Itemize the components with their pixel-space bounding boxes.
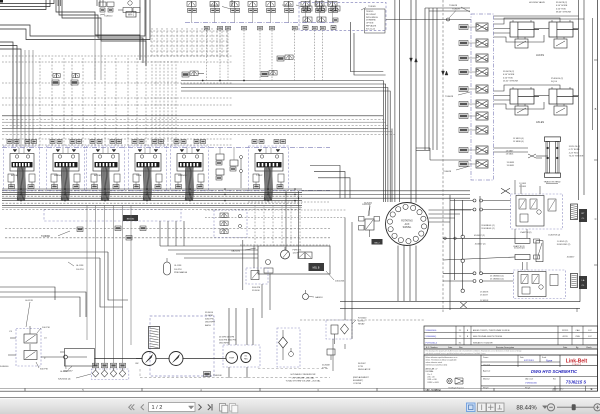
wire top-left staircase bundle <box>0 0 150 128</box>
toolbar first-page button <box>129 404 135 410</box>
svg-text:CAD - Solid Edge: CAD - Solid Edge <box>426 388 442 391</box>
mini valve stack box <box>214 210 247 238</box>
pilot rails center-bottom <box>205 202 346 246</box>
svg-text:REGULATOR: REGULATOR <box>358 368 371 371</box>
valve station 5 (SWING 2) <box>171 140 209 201</box>
svg-text:Rev: Rev <box>459 347 463 349</box>
axle spec text <box>503 71 563 83</box>
wire staircase mid <box>310 166 350 199</box>
disconnect couplings B <box>443 272 513 283</box>
svg-text:V1/6661000: V1/6661000 <box>426 330 438 332</box>
track spec text <box>569 146 584 158</box>
svg-text:1X 6B3 8: 1X 6B3 8 <box>480 292 489 294</box>
pressure switch PS17 <box>261 71 277 77</box>
svg-text:EACH: EACH <box>205 324 211 327</box>
svg-text:SWIVEL: SWIVEL <box>403 227 412 229</box>
jack cylinder 1 <box>510 20 539 48</box>
label S2U6000 <box>58 374 91 380</box>
fan motor <box>241 353 251 363</box>
svg-text:OIL: OIL <box>244 356 247 358</box>
svg-text:C5A5T18 (2): C5A5T18 (2) <box>520 231 532 234</box>
svg-text:GAJ618: GAJ618 <box>315 296 323 299</box>
wire box to column top <box>386 9 584 22</box>
svg-text:OPTION: OPTION <box>366 23 374 25</box>
svg-text:3000 PSI 3000 PSI: 3000 PSI 3000 PSI <box>219 340 236 342</box>
toolbar zoom slider <box>557 404 594 410</box>
pilot rail (blue dash-dot) <box>2 148 330 191</box>
swivel lower ports <box>398 246 416 302</box>
svg-text:2/22/19: 2/22/19 <box>562 330 568 332</box>
wire nested rectangle bundle B <box>350 0 399 202</box>
svg-text:MSL B: MSL B <box>313 268 320 270</box>
svg-text:1X 6B36 (4): 1X 6B36 (4) <box>513 141 524 143</box>
axle cylinder 2 <box>549 87 578 115</box>
svg-text:1X 6D37: 1X 6D37 <box>480 295 489 297</box>
svg-text:T3J6060: T3J6060 <box>41 236 51 238</box>
svg-text:JCC: JCC <box>588 330 592 332</box>
svg-text:CAH: CAH <box>576 329 581 332</box>
reservoir and filter <box>277 328 300 367</box>
toolbar zoom in <box>594 404 600 411</box>
wire panel to pumps <box>243 240 270 318</box>
reservoir boundary dashed <box>140 369 330 378</box>
svg-text:(REPLACEMENT: (REPLACEMENT <box>353 376 369 379</box>
gauge panel <box>258 246 330 274</box>
svg-text:E.C. Number: E.C. Number <box>426 347 438 349</box>
svg-text:RELAY: RELAY <box>358 323 365 326</box>
title weight sheet <box>483 387 593 391</box>
title drawing name <box>483 369 578 374</box>
svg-text:26.52" STROKE: 26.52" STROKE <box>503 81 519 83</box>
svg-text:4.24" ROD: 4.24" ROD <box>569 152 579 154</box>
svg-text:54J6192: 54J6192 <box>364 203 373 205</box>
wire pump outlets <box>229 308 253 378</box>
wire filter feed verticals <box>87 205 131 363</box>
svg-text:73J6215 S: 73J6215 S <box>566 379 586 384</box>
wire right mid verticals <box>450 195 480 310</box>
mesh junction dots <box>52 83 177 140</box>
svg-text:Approval: Approval <box>483 370 491 373</box>
valve cluster 74J6010 top-left <box>99 1 140 18</box>
tag WA-1 <box>126 5 231 17</box>
pilot rail top (blue dash-dot) <box>185 22 335 24</box>
proprietary note <box>424 349 598 355</box>
steer cylinder text <box>475 231 576 259</box>
tag MSL B <box>309 263 325 271</box>
svg-text:Material: Material <box>483 378 490 381</box>
dashed vertical 443 <box>442 0 449 312</box>
svg-text:10/750: 10/750 <box>358 321 365 323</box>
svg-text:C R A N E S: C R A N E S <box>572 363 582 366</box>
valve station 6 (T-SUP) <box>249 140 289 201</box>
wire below-bus verticals <box>160 221 258 258</box>
svg-text:ELEMENT): ELEMENT) <box>353 380 363 382</box>
svg-text:3KO W/6&7: 3KO W/6&7 <box>366 14 376 16</box>
toolbar single-page icon <box>220 404 228 413</box>
svg-text:T3J6108: T3J6108 <box>213 375 222 377</box>
wire run y287 <box>0 287 55 300</box>
svg-text:C: C <box>595 217 597 221</box>
pilot tag row and dashed drops <box>204 26 325 80</box>
svg-text:TRACK EXTEND: TRACK EXTEND <box>544 181 561 184</box>
junction node GAJ6067 <box>41 355 87 372</box>
wire far right verticals <box>579 0 593 200</box>
svg-text:JCC: JCC <box>588 336 592 338</box>
svg-text:GLJ138: GLJ138 <box>76 265 84 267</box>
svg-text:BOOM: BOOM <box>11 175 18 177</box>
toolbar prev-page button <box>141 404 144 410</box>
pump enclosure 51J6010 <box>150 312 215 376</box>
svg-text:10UD266: 10UD266 <box>335 281 345 283</box>
svg-text:1863 RPM: 1863 RPM <box>219 343 229 345</box>
rotating hydraulic swivel <box>386 203 429 246</box>
pressure switch PS18 <box>182 71 204 77</box>
svg-text:4.50" ROD: 4.50" ROD <box>503 77 513 79</box>
svg-text:5 PSI: 5 PSI <box>358 366 363 368</box>
svg-text:PRECHARGE: PRECHARGE <box>174 271 188 274</box>
svg-text:E: E <box>591 387 593 391</box>
steer assembly A <box>511 194 563 229</box>
svg-text:20108B001 (2): 20108B001 (2) <box>481 225 495 227</box>
track hose labels <box>506 138 536 167</box>
svg-text:1X 6B39: 1X 6B39 <box>507 162 516 164</box>
label 10UD266 panel <box>326 271 345 283</box>
svg-text:WA-1: WA-1 <box>128 14 135 17</box>
toolbar zoom percent <box>516 406 547 412</box>
wire above title block <box>300 218 424 371</box>
right valve column manifold <box>471 14 494 180</box>
svg-text:38.03" STROKE: 38.03" STROKE <box>556 12 572 14</box>
svg-text:GLJ139: GLJ139 <box>25 300 33 302</box>
svg-text:T3J6028: T3J6028 <box>445 96 454 98</box>
wire nested rectangle bundle A <box>181 80 390 202</box>
wire top edge stubs <box>58 0 328 6</box>
svg-text:74J6010: 74J6010 <box>104 16 113 18</box>
swivel left cluster 54J6192 <box>359 203 380 238</box>
svg-text:20109B001 (2): 20109B001 (2) <box>481 228 495 230</box>
toolbar view icon 2 <box>478 403 487 412</box>
svg-text:P6PD031: P6PD031 <box>293 250 303 252</box>
pump P1 <box>136 352 156 366</box>
option box 73J6105 <box>299 3 386 34</box>
valve station 1 (BOOM) <box>4 140 40 201</box>
svg-text:1X 6B3: 1X 6B3 <box>519 186 526 188</box>
svg-text:.XXXX ± .0005: .XXXX ± .0005 <box>427 382 439 384</box>
tag RIGHT <box>579 209 587 222</box>
pressure switch PS16 <box>277 55 293 61</box>
tag T3J6108 <box>204 372 223 377</box>
label hydraulic reservoir <box>286 373 322 382</box>
label 100 PSI precharge left <box>68 262 84 271</box>
svg-text:5060 PSI: 5060 PSI <box>205 318 214 320</box>
third angle projection symbol <box>447 378 464 390</box>
svg-text:ROTATING: ROTATING <box>401 220 413 223</box>
svg-text:51J6008: 51J6008 <box>322 365 331 367</box>
title cad level <box>483 377 586 384</box>
valve station 3 (BOOM 1) <box>87 140 125 201</box>
wire left runs mid <box>0 252 128 317</box>
svg-text:O7J6748: O7J6748 <box>353 383 362 385</box>
jack spec text <box>529 1 572 14</box>
svg-text:C5J63T18 (2): C5J63T18 (2) <box>548 235 561 237</box>
svg-text:SIMILAR TO 73J6197E: SIMILAR TO 73J6197E <box>473 341 493 344</box>
svg-text:6.50" BORE: 6.50" BORE <box>556 5 568 7</box>
revision table <box>424 326 598 345</box>
svg-text:1X 6B3: 1X 6B3 <box>519 183 526 185</box>
breather and regulator <box>322 349 371 385</box>
svg-text:By: By <box>576 347 578 349</box>
svg-text:SWING: SWING <box>54 175 62 177</box>
svg-text:51J6010: 51J6010 <box>205 312 214 314</box>
svg-text:MS 2: MS 2 <box>374 242 380 244</box>
svg-text:26 GPM 26 GPM: 26 GPM 26 GPM <box>219 337 235 339</box>
gauge GAJ618 <box>303 290 324 300</box>
pilot dashed mesh upper-center <box>150 28 228 56</box>
assembly B cooler element <box>571 274 578 288</box>
svg-text:4.50" ROD: 4.50" ROD <box>556 8 566 10</box>
wire left vertical bundle <box>13 50 33 147</box>
labels for 54J6000 <box>0 300 50 371</box>
svg-text:Check: Check <box>586 347 592 349</box>
label TRACK EXTEND <box>544 181 561 184</box>
svg-text:1X 6B3 8: 1X 6B3 8 <box>480 300 489 302</box>
svg-text:31J0078 (2): 31J0078 (2) <box>556 2 567 4</box>
pressure switch PS12 <box>71 74 79 86</box>
svg-text:6.50" BORE: 6.50" BORE <box>503 74 515 76</box>
tag MS-2 <box>372 239 383 245</box>
title cells drawn <box>483 356 553 367</box>
svg-text:88.44%: 88.44% <box>516 406 537 412</box>
svg-text:HOLDING VALVE: HOLDING VALVE <box>529 1 545 4</box>
title block frame <box>424 355 598 391</box>
jack cylinder 2 <box>549 20 578 48</box>
svg-text:TOTAL SYSTEM VOLUME - 263 GAL: TOTAL SYSTEM VOLUME - 263 GAL <box>286 380 322 383</box>
return filters S2U6000 (4) <box>92 363 129 379</box>
toolbar last-page button <box>208 404 212 411</box>
pump P2 <box>169 352 183 366</box>
svg-text:CWH: CWH <box>575 336 580 338</box>
svg-text:S2U6000 (4): S2U6000 (4) <box>58 378 71 380</box>
svg-text:DECIMAL: DECIMAL <box>426 370 434 373</box>
svg-text:54J6000: 54J6000 <box>0 366 9 368</box>
wire staircase top-left descending <box>56 0 146 80</box>
sheet right border with zone letters <box>594 0 598 391</box>
valve station 4 (TELE) <box>129 140 167 201</box>
toolbar view icon 1 active <box>467 403 476 412</box>
svg-text:T3J6078: T3J6078 <box>452 9 461 11</box>
svg-text:4 PSI: 4 PSI <box>322 368 327 370</box>
svg-text:500 PSI: 500 PSI <box>40 369 48 371</box>
assembly B labels <box>490 276 504 281</box>
label TOJ6239 <box>282 5 306 8</box>
svg-text:6660 PSI W/AS 4440 PSI 73J6164: 6660 PSI W/AS 4440 PSI 73J6164 <box>473 335 502 338</box>
svg-text:100 PSI: 100 PSI <box>42 327 50 329</box>
tag LAST <box>579 276 587 289</box>
svg-text:51J0076 (2): 51J0076 (2) <box>503 71 514 73</box>
labels T3J6028 <box>443 5 470 173</box>
accumulator OLJ138 <box>164 258 188 275</box>
svg-text:3000 PSI: 3000 PSI <box>252 287 261 289</box>
wire low horizontal runs <box>340 220 580 312</box>
svg-text:T-SUP: T-SUP <box>256 175 263 177</box>
main bus band <box>2 189 470 205</box>
svg-text:1X 6B31 (4): 1X 6B31 (4) <box>513 138 524 140</box>
label JACKS <box>536 54 544 57</box>
svg-text:V1/6661000: V1/6661000 <box>525 383 538 385</box>
toolbar next-page button <box>199 404 202 410</box>
disconnect couplings A <box>450 199 511 211</box>
svg-text:23 185B001 (2): 23 185B001 (2) <box>490 276 504 278</box>
svg-text:WITH WINCH: WITH WINCH <box>366 17 378 19</box>
relief relay R7J2000 <box>326 318 367 345</box>
svg-text:1863 RPM: 1863 RPM <box>205 322 215 324</box>
svg-text:SQ D4: SQ D4 <box>551 81 558 83</box>
pressure switch PS11 <box>52 74 60 86</box>
aux pump enclosure <box>219 337 260 368</box>
svg-text:P5J61614 (2): P5J61614 (2) <box>551 78 563 80</box>
svg-text:Weight: Weight <box>483 387 489 390</box>
wire assembly risers <box>515 180 540 270</box>
toolbar view icon 4 <box>496 403 505 412</box>
label 10UD262 top <box>362 204 372 216</box>
label AXLES <box>536 121 544 124</box>
x junction low <box>460 292 489 309</box>
label GAJ6090 <box>231 248 256 253</box>
wire right vertical bundle above swivel <box>425 8 470 150</box>
solenoid valve row top-center <box>187 2 338 23</box>
wire swivel to right runs <box>429 210 472 222</box>
svg-text:4/1/19: 4/1/19 <box>562 336 567 338</box>
below-bus blue box and rails <box>2 208 330 241</box>
sheet bottom border with zone ticks <box>0 388 598 392</box>
wire long runs upper-mid <box>2 116 395 202</box>
svg-text:TOJ6239: TOJ6239 <box>282 5 292 7</box>
valve block above pump <box>149 327 160 349</box>
svg-text:OIL VOLUME - 240 GAL: OIL VOLUME - 240 GAL <box>292 376 316 379</box>
svg-text:20169/1362 (2): 20169/1362 (2) <box>557 244 571 246</box>
svg-text:REPLACES: REPLACES <box>366 25 377 28</box>
svg-text:T3J6028: T3J6028 <box>449 5 458 7</box>
svg-text:B: B <box>595 107 597 111</box>
solenoid valve 10UD266 <box>298 252 312 259</box>
axle cylinder 1 <box>510 87 539 115</box>
engine box <box>60 349 95 374</box>
svg-text:GLJ6067: GLJ6067 <box>60 371 69 373</box>
svg-text:1 6 8545 (2): 1 6 8545 (2) <box>557 241 568 243</box>
svg-text:Checked: Checked <box>483 365 490 367</box>
valve block 54J6000 <box>8 326 41 366</box>
toolbar facing-page icon <box>230 404 238 413</box>
svg-text:AXLES: AXLES <box>536 121 544 124</box>
svg-text:OLJ138: OLJ138 <box>174 265 182 267</box>
toolbar background <box>0 398 600 414</box>
svg-text:23 185B001 (2): 23 185B001 (2) <box>490 279 504 281</box>
x junction mid <box>501 183 527 194</box>
svg-text:CAD Level: CAD Level <box>525 377 534 380</box>
svg-text:PUMP: PUMP <box>229 358 235 360</box>
svg-text:T3J6028: T3J6028 <box>443 171 452 173</box>
svg-text:Weight: Weight <box>525 387 531 390</box>
svg-text:SOL 14-15: SOL 14-15 <box>366 28 375 30</box>
gap cluster between stations 5 and 6 <box>216 148 243 189</box>
svg-text:Drawn: Drawn <box>483 357 488 359</box>
svg-text:Sheet 1 of 2: Sheet 1 of 2 <box>553 387 565 390</box>
pilot dashed mesh left <box>2 56 232 147</box>
label T3J6060 <box>41 231 70 238</box>
assembly A cooler element <box>571 204 578 220</box>
toolbar zoom out <box>547 404 554 411</box>
corner mark <box>0 0 3 3</box>
relief valve 3000 PSI <box>246 268 268 292</box>
wire assembly feeds <box>443 235 525 260</box>
valve station 2 (SWING) <box>47 140 85 201</box>
assembly A labels <box>481 225 560 237</box>
svg-text:34J1807: 34J1807 <box>358 363 367 365</box>
svg-text:100 PSI: 100 PSI <box>76 269 84 271</box>
title block left notes <box>426 356 458 384</box>
toolbar page box <box>149 403 196 412</box>
svg-text:74.25" STROKE: 74.25" STROKE <box>569 156 584 158</box>
svg-text:100 PSI: 100 PSI <box>174 269 182 271</box>
svg-text:ADDED 73J6225, 73J6229 W/AS 31: ADDED 73J6225, 73J6229 W/AS 31-26136 <box>473 329 510 332</box>
svg-text:51J6010: 51J6010 <box>252 290 261 292</box>
svg-text:GAJ6090: GAJ6090 <box>231 250 241 253</box>
steer cylinder capsules <box>515 238 543 261</box>
svg-text:1X 6B31: 1X 6B31 <box>507 165 516 167</box>
svg-text:ANGULAR ± 1°: ANGULAR ± 1° <box>426 368 439 371</box>
svg-text:73J6105: 73J6105 <box>366 11 373 13</box>
revision table header <box>424 345 598 349</box>
wire bundle to swivel verticals <box>392 0 471 203</box>
svg-text:DWG HYD SCHEMATIC: DWG HYD SCHEMATIC <box>531 369 578 374</box>
svg-text:JACKS: JACKS <box>536 54 544 57</box>
svg-text:6/27/2019: 6/27/2019 <box>524 360 535 362</box>
svg-text:1X 6B16: 1X 6B16 <box>506 154 515 156</box>
svg-text:Date: Date <box>520 356 524 359</box>
steer assembly B <box>513 270 565 299</box>
svg-text:T3J6105: T3J6105 <box>368 6 377 8</box>
svg-text:Rev: Rev <box>553 378 556 380</box>
svg-text:45J6657 (2): 45J6657 (2) <box>475 244 486 246</box>
svg-text:None: None <box>546 358 553 362</box>
wire pair right of station 6 <box>285 191 299 259</box>
svg-text:70 GPM: 70 GPM <box>205 315 213 317</box>
track extend cylinders <box>545 137 561 178</box>
svg-text:125 P: 125 P <box>293 253 299 255</box>
svg-text:OW: OW <box>135 363 139 365</box>
svg-text:P17754/62-4: P17754/62-4 <box>426 342 438 344</box>
svg-text:V1/6660/6Q: V1/6660/6Q <box>426 336 437 338</box>
pump drive shaft <box>95 359 227 366</box>
svg-text:45J6657: 45J6657 <box>567 257 576 259</box>
pump P3 (charge) <box>226 352 238 364</box>
svg-text:AUX: AUX <box>405 223 410 226</box>
wire right horizontals to cylinders <box>494 18 579 158</box>
svg-text:45J6657 (2): 45J6657 (2) <box>474 235 485 237</box>
bus junction dots <box>20 188 296 201</box>
svg-text:R7J2000: R7J2000 <box>358 318 367 320</box>
BO tag boxes <box>459 25 476 167</box>
svg-text:HYDRAULIC RESERVOIR: HYDRAULIC RESERVOIR <box>291 373 316 376</box>
svg-text:Revision Description: Revision Description <box>496 346 514 349</box>
svg-text:1 / 2: 1 / 2 <box>152 405 163 411</box>
tag BB1-B2 <box>123 215 138 221</box>
svg-text:CEA5T18 (2): CEA5T18 (2) <box>513 245 525 248</box>
toolbar view icon 3 <box>487 403 496 412</box>
link-belt logo <box>566 359 588 366</box>
cad note <box>426 388 442 391</box>
svg-text:DOWN/HID: DOWN/HID <box>366 20 376 22</box>
